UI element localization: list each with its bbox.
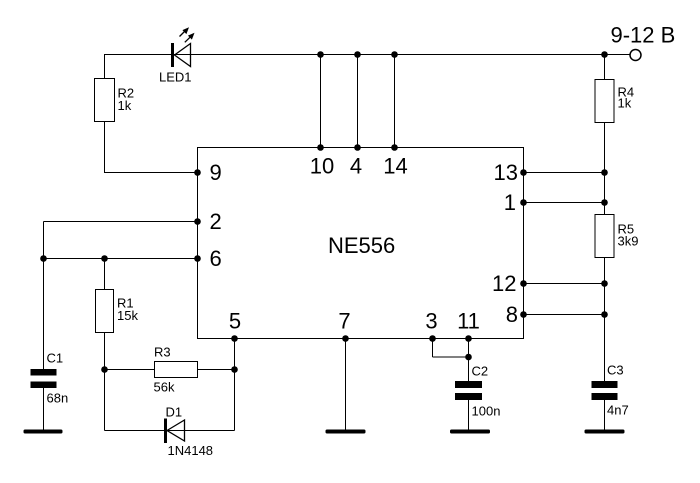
node pin13 R4 (601, 169, 608, 176)
node pin6 left junction (40, 255, 47, 262)
resistor R2 (95, 79, 115, 122)
ground C2 (450, 430, 490, 434)
wire pin 1 (524, 202, 605, 204)
wire pin 6 (44, 258, 198, 260)
wire pin 12 (524, 283, 605, 285)
wire pin 5 vertical (234, 339, 236, 431)
svg-text:C2: C2 (472, 364, 489, 379)
wire pin 13 (524, 172, 605, 174)
node rail pin4 (354, 51, 361, 58)
svg-text:C3: C3 (607, 363, 624, 378)
svg-text:7: 7 (338, 309, 350, 334)
svg-text:NE556: NE556 (328, 233, 395, 258)
wire pin 2 (44, 221, 198, 223)
node pin 14 (391, 144, 398, 151)
node pin 7 (342, 335, 349, 342)
wire R4 top leg (604, 55, 606, 80)
wire D1 horizontal (105, 430, 235, 432)
resistor R5 (595, 215, 614, 258)
ground C1 (24, 430, 63, 434)
capacitor C1 (31, 369, 57, 388)
wire C1 to ground (43, 388, 45, 430)
svg-text:5: 5 (229, 309, 241, 334)
node pin 4 (354, 144, 361, 151)
node pin 12 (520, 280, 527, 287)
svg-text:68n: 68n (47, 391, 69, 406)
node pin6 R1 junction (101, 255, 108, 262)
svg-text:R3: R3 (154, 345, 171, 360)
svg-text:4n7: 4n7 (607, 403, 629, 418)
wire pin 3 vertical (432, 339, 434, 358)
ground C3 (585, 430, 625, 434)
svg-text:1k: 1k (618, 96, 632, 111)
wire R2 top leg (104, 55, 106, 79)
node C2 junction (465, 354, 472, 361)
label R2 1k (118, 86, 135, 114)
svg-text:4: 4 (350, 154, 362, 179)
wire pin 7 vertical (345, 339, 347, 430)
label R4 1k (618, 85, 635, 111)
label R1 15k (117, 296, 138, 324)
node pin 2 (194, 218, 201, 225)
node R3 right (231, 366, 238, 373)
wire top supply rail (104, 54, 630, 56)
node pin 6 (194, 255, 201, 262)
wire pin 4 drop (357, 55, 359, 148)
node pin12 right (601, 280, 608, 287)
wire pin 11 to C2 (468, 339, 470, 382)
node rail R4 (601, 51, 608, 58)
svg-text:56k: 56k (154, 380, 175, 395)
node pin 1 (520, 199, 527, 206)
wire pin 9 (104, 172, 197, 174)
wire pin 14 drop (394, 55, 396, 148)
svg-text:100n: 100n (472, 404, 501, 419)
svg-text:3k9: 3k9 (618, 234, 639, 249)
svg-text:1N4148: 1N4148 (168, 443, 214, 458)
LED LED1 (171, 27, 195, 67)
wire R1 to D1 (104, 370, 106, 431)
svg-text:15k: 15k (117, 308, 138, 323)
node pin 8 (520, 311, 527, 318)
svg-text:11: 11 (457, 309, 480, 334)
label R5 3k9 (618, 222, 639, 249)
wire R1 top leg (104, 259, 106, 290)
svg-text:10: 10 (310, 154, 334, 179)
svg-text:12: 12 (492, 271, 516, 296)
wire pin 3 to pin 11 (433, 356, 469, 358)
node pin 3 (429, 335, 436, 342)
svg-text:1: 1 (504, 190, 516, 215)
node rail pin10 (317, 51, 324, 58)
IC U1 NE556 box (198, 148, 524, 339)
wire C2 to ground (468, 400, 470, 430)
ground pin 7 (326, 430, 366, 434)
svg-text:C1: C1 (47, 351, 64, 366)
wire R5 to C3 (604, 258, 606, 382)
node pin 11 (465, 335, 472, 342)
wire R3 right leg (198, 369, 235, 371)
wire left vertical to C1 (43, 222, 45, 370)
node pin 13 (520, 169, 527, 176)
terminal 9-12V supply (630, 50, 641, 61)
svg-text:3: 3 (425, 309, 437, 334)
svg-text:6: 6 (210, 246, 222, 271)
diode D1 (164, 419, 185, 444)
wire pin 8 (524, 314, 605, 316)
svg-text:9: 9 (210, 160, 222, 185)
resistor R1 (96, 290, 114, 333)
svg-text:13: 13 (494, 160, 518, 185)
node R3 left (101, 366, 108, 373)
wire R3 left leg (105, 369, 155, 371)
capacitor C2 (455, 381, 482, 400)
node pin 9 (194, 169, 201, 176)
wire R1 bottom leg (104, 333, 106, 370)
node rail pin14 (391, 51, 398, 58)
node pin 10 (317, 144, 324, 151)
svg-text:1k: 1k (118, 98, 132, 113)
svg-text:D1: D1 (166, 405, 183, 420)
svg-text:LED1: LED1 (159, 70, 192, 85)
wire R4 to R5 (604, 123, 606, 215)
svg-text:14: 14 (383, 154, 407, 179)
wire C3 to ground (604, 400, 606, 430)
node pin 5 (231, 335, 238, 342)
wire R2 bottom leg (104, 122, 106, 173)
node pin8 right (601, 311, 608, 318)
capacitor C3 (592, 381, 618, 400)
resistor R3 (155, 362, 198, 378)
svg-text:2: 2 (210, 209, 222, 234)
wire pin 10 drop (320, 55, 322, 148)
svg-text:8: 8 (506, 302, 518, 327)
node pin1 R5 (601, 199, 608, 206)
svg-text:9-12 В: 9-12 В (611, 23, 676, 48)
resistor R4 (595, 80, 614, 123)
